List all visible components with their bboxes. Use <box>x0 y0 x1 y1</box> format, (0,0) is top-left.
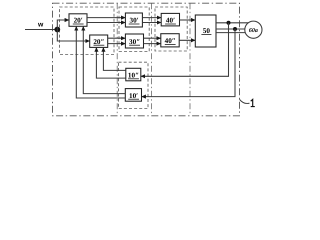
block 10' <box>125 89 141 102</box>
svg-text:20′: 20′ <box>74 17 83 25</box>
wire 20" to 30" lower <box>108 43 126 45</box>
reference numeral 1 <box>251 99 255 106</box>
block 40" <box>161 34 179 47</box>
wire 30" to 40" lower <box>144 43 161 45</box>
output wire 3 from 50 to motor (bottom phase) <box>216 32 246 34</box>
wire 20" to 30" upper <box>108 37 126 39</box>
wire 30' to 40' lower <box>142 22 161 24</box>
svg-text:30′: 30′ <box>129 17 138 25</box>
svg-text:20″: 20″ <box>93 38 104 46</box>
block 10" <box>126 68 141 81</box>
wire 20' to 30' lower <box>87 22 125 24</box>
svg-text:40″: 40″ <box>165 37 176 45</box>
svg-text:50: 50 <box>203 27 211 35</box>
wire 20' to 30' upper <box>87 17 125 19</box>
wire from node w to block 20" <box>57 30 89 42</box>
output wire 1 from 50 to motor (top phase) <box>216 22 248 24</box>
feedback wire from phase 1 node to block 10" <box>141 23 229 77</box>
wire 40' to 50 <box>180 19 196 21</box>
feedback wire 10" lower output to bottom of 20" (left arrow) <box>96 47 125 78</box>
svg-text:60a: 60a <box>249 28 258 34</box>
output wire 2 from 50 to motor (middle phase) <box>216 28 245 30</box>
wire 30' to 40' upper <box>142 17 161 19</box>
feedback wire 10' lower output to bottom of 20' (left arrow) <box>76 26 125 98</box>
junction node on input w <box>54 27 60 33</box>
dashed module box around 10" and 10' <box>119 62 149 108</box>
dashed module box around 20' and 20" <box>60 7 115 55</box>
block 20" <box>90 35 108 47</box>
wire 30" to 40" upper <box>144 37 161 39</box>
svg-text:40′: 40′ <box>166 17 175 25</box>
block 30' <box>125 13 142 27</box>
wire from node w to block 20' <box>57 20 69 30</box>
svg-text:10′: 10′ <box>129 92 138 100</box>
junction node on phase 2 <box>233 27 237 31</box>
block 40' <box>161 13 179 26</box>
wire 40" to 50 <box>179 39 195 41</box>
feedback wire 10" upper output to bottom of 20" (right arrow) <box>103 47 125 70</box>
block 20' <box>69 14 87 26</box>
partition line between 40-module and 50-module <box>189 3 191 116</box>
input wire w <box>25 29 57 31</box>
svg-text:w: w <box>37 21 44 28</box>
dashed module box around 30' and 30" <box>119 7 149 52</box>
svg-text:30″: 30″ <box>129 38 140 46</box>
dashed module box around 40' and 40" <box>155 7 187 51</box>
svg-text:10″: 10″ <box>128 71 139 79</box>
reference numeral 1 leader line <box>240 99 250 103</box>
block 30" <box>125 34 143 48</box>
motor circle 60a <box>245 21 262 38</box>
feedback wire from phase 2 node to block 10' <box>142 29 236 97</box>
partition line between input module and 30-module <box>116 3 118 116</box>
feedback wire 10' upper output to bottom of 20' (right arrow) <box>83 26 125 93</box>
block 50 <box>195 15 216 47</box>
junction node on phase 1 <box>227 21 231 25</box>
outer system boundary 1 (dash-dot frame) <box>53 3 240 116</box>
partition line between 30-module and 40-module <box>151 3 153 116</box>
